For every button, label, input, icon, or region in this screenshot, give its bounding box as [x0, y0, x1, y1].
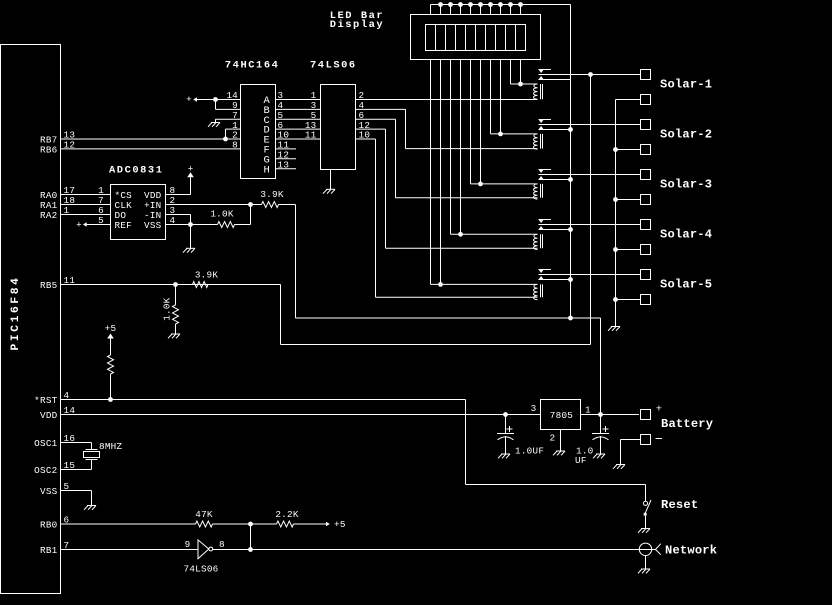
- ground at ADC VSS: [183, 225, 195, 253]
- resistor R4 1.0K pulldown with ground: [162, 285, 181, 339]
- wire VSS (PIC pin 5) to ground: [40, 481, 92, 497]
- wire inverter output to network connector: [213, 549, 640, 551]
- wire relay K1 common to RB5 sense line and reset net: [281, 75, 591, 345]
- resistor R2 1.0K divider lower leg: [166, 205, 251, 228]
- svg-text:*RST: *RST: [34, 395, 57, 406]
- microcontroller U1 PIC16F84: [1, 45, 61, 594]
- LED bar display module: [411, 15, 541, 60]
- svg-text:Display: Display: [330, 19, 385, 31]
- svg-text:UF: UF: [575, 455, 587, 466]
- svg-text:VSS: VSS: [40, 486, 58, 497]
- wire RA0 (PIC pin 17) to ADC *CS: [40, 185, 111, 201]
- svg-text:Solar-4: Solar-4: [660, 228, 712, 242]
- svg-text:VSS: VSS: [144, 220, 162, 231]
- relay K2 contacts and coil: [534, 120, 641, 150]
- label Network: [665, 544, 717, 558]
- label Solar-3: [660, 178, 712, 192]
- svg-text:RA2: RA2: [40, 210, 58, 221]
- svg-text:+5: +5: [334, 519, 346, 530]
- svg-text:16: 16: [64, 433, 76, 444]
- wire OSC1 (PIC pin 16) to crystal: [34, 433, 91, 449]
- voltage regulator U5 7805: [531, 400, 591, 456]
- label Solar-2: [660, 128, 712, 142]
- svg-text:RB0: RB0: [40, 519, 58, 530]
- wire 74LS06 pin 4 to relay K2 coil: [356, 100, 538, 149]
- svg-text:12: 12: [64, 140, 76, 151]
- svg-text:1.0K: 1.0K: [162, 297, 173, 320]
- wire RB6 (PIC pin 12) to 74HC164 clock pin 8: [40, 140, 241, 156]
- label 74LS06 (gate): [184, 564, 219, 575]
- svg-text:3.9K: 3.9K: [260, 189, 283, 200]
- relay K4 contacts and coil: [534, 220, 641, 250]
- svg-text:8: 8: [232, 140, 238, 151]
- crystal X1 8MHZ: [84, 441, 123, 470]
- label LED Bar Display: [330, 10, 385, 31]
- svg-text:ADC0831: ADC0831: [109, 164, 164, 176]
- ground at PIC VSS: [84, 491, 96, 510]
- ground at 74HC164 pin 7: [208, 110, 241, 127]
- wire 74HC164 pin 1 tied to pin 2 (data inputs): [223, 120, 240, 151]
- wire RA2 (PIC pin 1) to ADC DO: [40, 205, 111, 221]
- wires LED segments 3,4 to relay K4 coil: [451, 60, 538, 237]
- resistor R6 2.2K to +5: [275, 509, 345, 530]
- wire *RST (PIC pin 4) to reset switch: [34, 390, 465, 406]
- svg-text:13: 13: [278, 159, 290, 170]
- svg-text:Solar-3: Solar-3: [660, 178, 712, 192]
- svg-text:Battery: Battery: [661, 417, 714, 431]
- battery+ rail to 7805 input node: [296, 318, 601, 415]
- wires LED segments 7,8 to relay K2 coil: [491, 60, 538, 137]
- svg-text:VDD: VDD: [40, 410, 58, 421]
- svg-text:Solar-2: Solar-2: [660, 128, 712, 142]
- svg-text:7805: 7805: [550, 410, 573, 421]
- LED supply bus down right side (battery+ rail): [568, 5, 573, 321]
- wire RB5 (PIC pin 11) solar sense line: [40, 275, 218, 291]
- wire RB7 (PIC pin 13) to 74HC164 data inputs: [40, 130, 241, 146]
- svg-text:5: 5: [98, 215, 104, 226]
- label Solar-1: [660, 78, 712, 92]
- wire 74LS06 pin 10 to relay K5 coil: [356, 130, 538, 298]
- ground at 74LS06 pin 7: [323, 170, 335, 194]
- svg-text:3: 3: [531, 403, 537, 414]
- svg-text:2: 2: [550, 433, 556, 444]
- svg-text:Solar-1: Solar-1: [660, 78, 712, 92]
- label Solar-4: [660, 228, 712, 242]
- relay K3 contacts and coil: [534, 170, 641, 200]
- resistor R5 47K: [195, 509, 276, 527]
- svg-text:74LS06: 74LS06: [310, 60, 357, 72]
- solar return ground bus: [608, 100, 620, 331]
- connector Solar-1 pads: [616, 70, 651, 105]
- svg-text:47K: 47K: [195, 509, 213, 520]
- svg-text:15: 15: [64, 460, 76, 471]
- label Battery: [661, 417, 714, 431]
- wire VDD (PIC pin 14) from 7805 output: [40, 405, 541, 421]
- ADC U4 ADC0831: [109, 164, 166, 239]
- pull-up resistor to +5 on *RST: [105, 323, 117, 402]
- LED bar display anode supply wire: [431, 2, 571, 14]
- reset pushbutton switch S1: [466, 400, 652, 533]
- svg-text:H: H: [264, 164, 271, 176]
- svg-text:1.0K: 1.0K: [210, 209, 233, 220]
- svg-text:RB1: RB1: [40, 545, 58, 556]
- relay K5 contacts and coil: [534, 270, 641, 300]
- svg-text:RB6: RB6: [40, 144, 58, 155]
- + supply arrow to ADC VDD pin 8: [166, 163, 194, 196]
- wires LED segments 1,2 to relay K5 coil: [431, 60, 538, 287]
- svg-text:6: 6: [64, 515, 70, 526]
- svg-text:2.2K: 2.2K: [275, 509, 298, 520]
- svg-text:3.9K: 3.9K: [195, 270, 218, 281]
- wire OSC2 (PIC pin 15) to crystal: [34, 460, 91, 476]
- svg-text:OSC1: OSC1: [34, 438, 57, 449]
- svg-text:7: 7: [64, 540, 70, 551]
- resistor R1 3.9K battery sense divider: [166, 189, 296, 318]
- relay K1 contacts and coil: [534, 70, 641, 100]
- wire 74LS06 pin 12 to relay K4 coil: [356, 120, 538, 249]
- svg-text:Reset: Reset: [661, 498, 698, 512]
- label Solar-5: [660, 278, 712, 292]
- wire RB0 junction to network line: [248, 524, 253, 552]
- svg-text:1: 1: [585, 405, 591, 416]
- svg-text:REF: REF: [115, 220, 133, 231]
- svg-text:1: 1: [64, 205, 70, 216]
- svg-text:8MHZ: 8MHZ: [99, 441, 122, 452]
- wire RA1 (PIC pin 18) to ADC CLK: [40, 195, 111, 211]
- svg-text:4: 4: [170, 215, 176, 226]
- shift register U2 74HC164: [225, 60, 280, 179]
- svg-text:10: 10: [359, 130, 371, 141]
- connector Solar-4 pads: [616, 220, 651, 255]
- svg-text:RB5: RB5: [40, 280, 58, 291]
- connector Solar-2 pads: [616, 120, 651, 155]
- svg-text:74HC164: 74HC164: [225, 60, 280, 72]
- svg-text:74LS06: 74LS06: [184, 564, 219, 575]
- inverter gate U3F 74LS06 pins 9,8: [185, 539, 225, 559]
- wire 74LS06 pin 2 to relay K1 coil: [356, 90, 538, 101]
- svg-text:+: +: [186, 94, 192, 105]
- wire 7805 input pin 1 to battery+: [581, 412, 640, 417]
- svg-text:8: 8: [219, 539, 225, 550]
- resistor R3 3.9K solar sense: [173, 270, 280, 288]
- hex inverter U3 74LS06: [310, 60, 357, 170]
- svg-text:14: 14: [64, 405, 76, 416]
- wires LED segments 9,10 to relay K1 coil: [511, 60, 538, 87]
- wire RB1 (PIC pin 7) to 74LS06 inverter input: [40, 540, 198, 556]
- connector Solar-3 pads: [616, 170, 651, 205]
- +5 supply arrow to 74HC164 pins 14 and 9: [186, 90, 240, 111]
- svg-text:OSC2: OSC2: [34, 465, 57, 476]
- svg-text:+5: +5: [105, 323, 117, 334]
- wire ADC -IN pin 3 to VSS: [166, 205, 191, 224]
- label Reset: [661, 498, 698, 512]
- svg-text:PIC16F84: PIC16F84: [10, 275, 22, 350]
- stubs 74HC164 outputs QF QG QH pins 11,12,13: [276, 140, 297, 171]
- svg-text:+: +: [656, 404, 663, 416]
- + supply arrow to ADC REF pin 5: [76, 215, 110, 230]
- wire RB0 (PIC pin 6) network sense: [40, 515, 196, 531]
- connector Battery pads: [613, 404, 662, 469]
- svg-text:Network: Network: [665, 544, 717, 558]
- svg-text:5: 5: [64, 481, 70, 492]
- wires 74HC164 outputs QA-QE to 74LS06 inputs: [276, 90, 321, 141]
- svg-text:+: +: [188, 163, 194, 174]
- svg-text:11: 11: [64, 275, 76, 286]
- capacitor C2 1.0UF: [575, 415, 609, 467]
- svg-text:11: 11: [305, 130, 317, 141]
- svg-text:1.0UF: 1.0UF: [515, 446, 544, 457]
- connector Solar-5 pads: [616, 270, 651, 305]
- wires LED segments 5,6 to relay K3 coil: [471, 60, 538, 187]
- svg-text:4: 4: [64, 390, 70, 401]
- connector Network with ground: [638, 543, 661, 573]
- wire 74LS06 pin 6 to relay K3 coil: [356, 110, 538, 198]
- svg-text:9: 9: [185, 539, 191, 550]
- capacitor C1 1.0UF: [497, 412, 544, 458]
- svg-text:+: +: [76, 219, 82, 230]
- svg-text:Solar-5: Solar-5: [660, 278, 712, 292]
